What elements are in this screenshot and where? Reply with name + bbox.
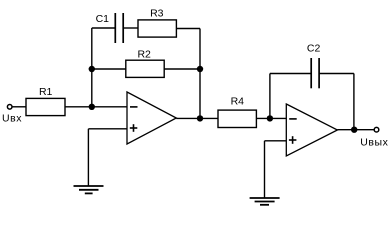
wire right feedback vertical x=200: [199, 29, 201, 119]
input terminal Uvx: [7, 105, 12, 110]
svg-text:R4: R4: [231, 96, 245, 108]
op-amp U2 minus pin mark: [289, 118, 297, 120]
resistor R1: [26, 98, 65, 115]
junction node E (output): [351, 127, 357, 133]
op-amp U1 minus pin mark: [130, 106, 138, 108]
resistor R3: [138, 20, 176, 37]
svg-text:Uвх: Uвх: [2, 113, 22, 125]
op-amp U2: [286, 104, 337, 156]
wire C2 loop top left: [270, 73, 311, 75]
wire C2 loop top right: [319, 73, 354, 75]
resistor R4: [218, 110, 256, 127]
junction node D (U2 inverting input net): [267, 115, 273, 121]
wire R4 to op-amp U2 inverting input: [256, 117, 286, 119]
wire R1 to op-amp U1 inverting input: [65, 106, 127, 108]
op-amp U1 plus pin mark: [130, 124, 138, 132]
junction node C (U1 output / feedback): [197, 115, 203, 121]
wire R3 to right vertical: [176, 28, 200, 30]
svg-text:R1: R1: [39, 86, 53, 98]
wire down to ground 1: [87, 129, 89, 186]
wire U2 non-inverting input: [265, 140, 287, 142]
wire U1 non-inverting input: [88, 128, 127, 130]
wire C1 to R3: [123, 27, 138, 29]
svg-text:Uвых: Uвых: [360, 137, 388, 149]
op-amp U2 plus pin mark: [289, 136, 297, 144]
output terminal Uvyh: [374, 127, 379, 132]
capacitor C2: [311, 58, 319, 88]
junction node A at R2 branch: [89, 66, 95, 72]
wire input to R1: [12, 106, 26, 108]
ground 1: [74, 186, 104, 193]
wire top branch to C1: [92, 27, 116, 29]
wire C2 down to U2 output: [353, 74, 355, 130]
svg-text:C1: C1: [96, 13, 110, 25]
wire R2 to node B: [164, 68, 200, 70]
wire vertical feedback bus x=92: [91, 28, 93, 107]
resistor R2: [126, 60, 164, 77]
op-amp U1: [127, 92, 176, 144]
svg-text:R2: R2: [137, 49, 151, 61]
junction node B at R2 right: [197, 66, 203, 72]
ground 2: [250, 198, 280, 205]
wire node A to R2: [92, 68, 126, 70]
wire down to ground 2: [264, 141, 266, 198]
svg-text:C2: C2: [307, 42, 321, 54]
wire U2 output to terminal: [337, 129, 374, 131]
wire node D up to C2: [269, 74, 271, 119]
capacitor C1: [115, 13, 123, 43]
wire U1 output to R4: [176, 117, 218, 119]
junction node A (inverting input net): [89, 104, 95, 110]
svg-text:R3: R3: [150, 7, 164, 19]
